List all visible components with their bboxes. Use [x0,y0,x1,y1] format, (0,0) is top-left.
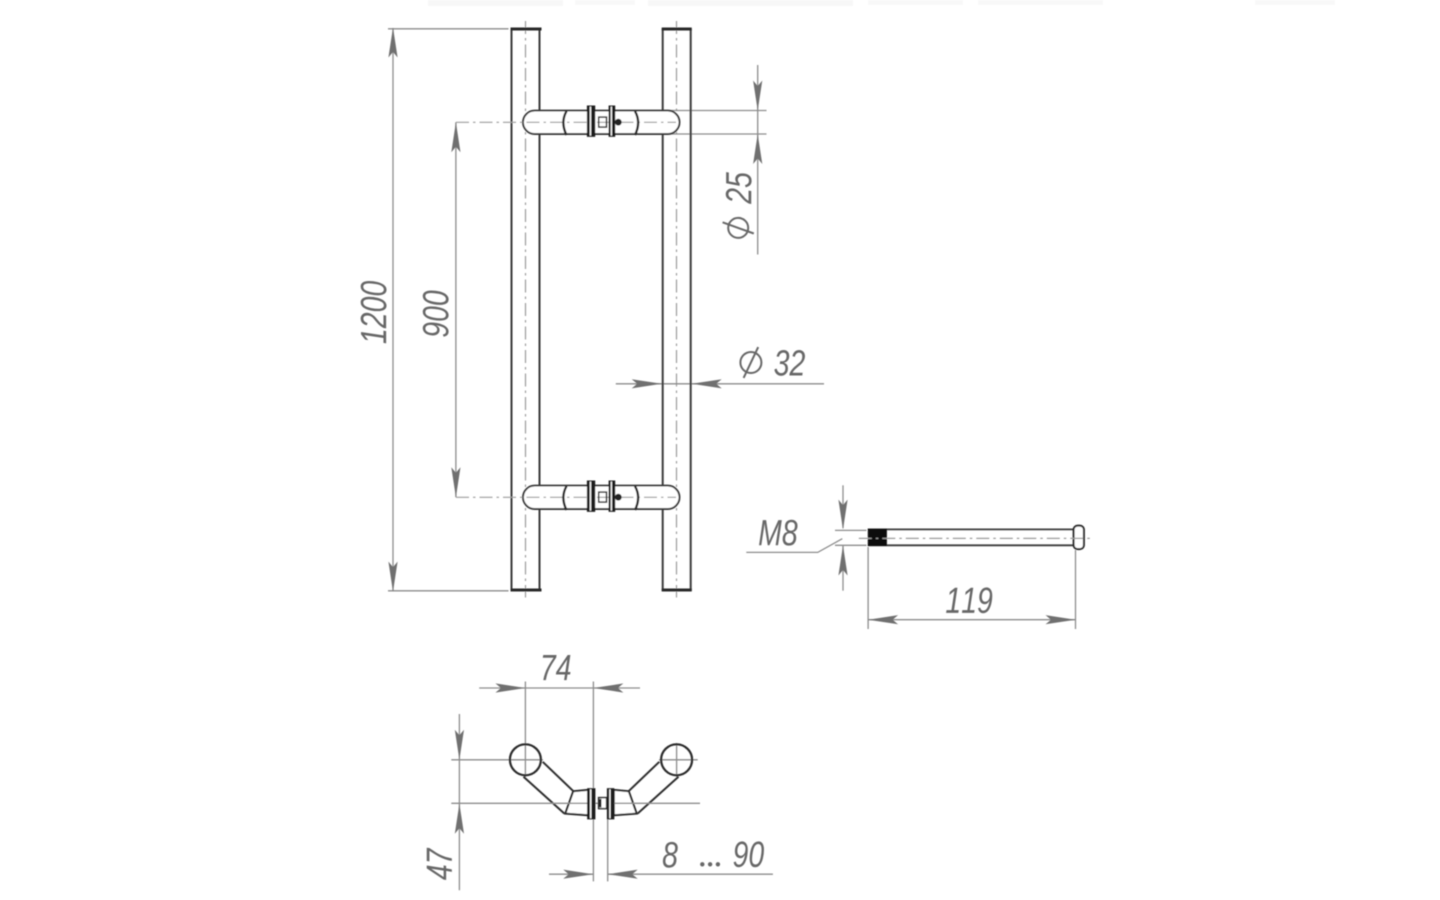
glass line B [607,789,609,881]
top standoff left disc [587,106,595,137]
dim 1200 arrow up [388,28,397,58]
spacer plan [599,798,607,809]
dimension text 900 [423,290,449,336]
dimension text 32 [774,350,805,376]
dim 1200 extension top [388,28,509,30]
dim 74 arrows [495,683,525,692]
bottom standoff right disc [609,481,616,512]
spacer pin dark [599,799,602,807]
diameter symbol for 25 [728,218,748,238]
119 ext lines [867,547,869,629]
dim 1200 extension bottom [388,590,509,592]
top standoff capsule [523,111,680,134]
dimension text 74 [543,655,571,680]
dimension text M8 [759,520,798,546]
dim 8...90 arrows [563,870,593,879]
bottom standoff pin dot [615,494,622,501]
centerline right tube [676,21,678,598]
dim 8...90 line [549,873,593,875]
centerline through bottom standoff [456,496,676,498]
top standoff left arc [563,111,566,135]
left tube [511,29,513,592]
right disc plan [607,788,614,819]
dimension text 47 [427,848,452,880]
left tube circle [510,744,541,775]
M8 dim line [842,485,844,528]
dim 900 line [455,122,457,497]
left disc plan [587,788,595,819]
right circle crosshair [659,759,698,761]
dimension text 90 [734,841,764,867]
top edge ghost artifacts [428,0,1335,6]
glass line A [592,682,594,882]
bolt thread [868,529,887,546]
right cone [614,790,637,815]
dimension text 25 [726,172,752,204]
dim Ø25 arrows [753,81,762,111]
119 arrows [868,615,898,624]
ext line through left circle vertical [524,682,526,778]
top standoff spacer [599,117,607,127]
diameter symbol for 32 [740,352,761,373]
bottom standoff right arc [635,486,638,510]
ext/crosshair left circle horizontal [451,759,543,761]
top standoff right arc [635,111,638,135]
bolt centerline [859,537,1092,539]
bottom standoff left disc [587,481,595,512]
M8 arrows [838,500,847,530]
right arm [629,762,660,792]
ext clamp center horizontal [451,802,700,804]
dim 47 line [458,714,460,890]
dimension text 1200 [361,281,387,343]
119 dim line [868,619,1075,621]
centerline through top standoff [456,121,676,123]
dim Ø32 line [616,383,824,385]
dimension text 119 [946,587,992,613]
dim 1200 line [392,28,394,592]
dim Ø32 arrows [632,379,662,388]
dim 1200 arrow down [388,562,397,592]
dim 900 arrow up [451,122,460,152]
M8 ext lines [835,529,867,531]
left arm [543,762,574,792]
bolt head [1074,526,1084,550]
dim 47 arrows [455,730,464,760]
left cone [565,790,588,815]
dimension text 8 [663,842,678,868]
right tube [662,29,664,592]
top standoff right disc [609,106,616,137]
right tube circle [661,744,692,775]
bottom standoff left arc [563,486,566,510]
dim Ø25 line [757,65,759,255]
top standoff pin dot [615,119,622,126]
bottom standoff capsule [523,486,680,509]
bolt rod [868,528,1074,530]
M8 leader [746,539,842,553]
dim Ø25 extension lines [667,110,767,112]
dim 900 arrow down [451,467,460,497]
ellipsis dots in 8...90 [700,862,704,866]
centerline left tube [525,21,527,598]
bottom standoff spacer [599,492,607,502]
dim 74 line [479,687,640,689]
